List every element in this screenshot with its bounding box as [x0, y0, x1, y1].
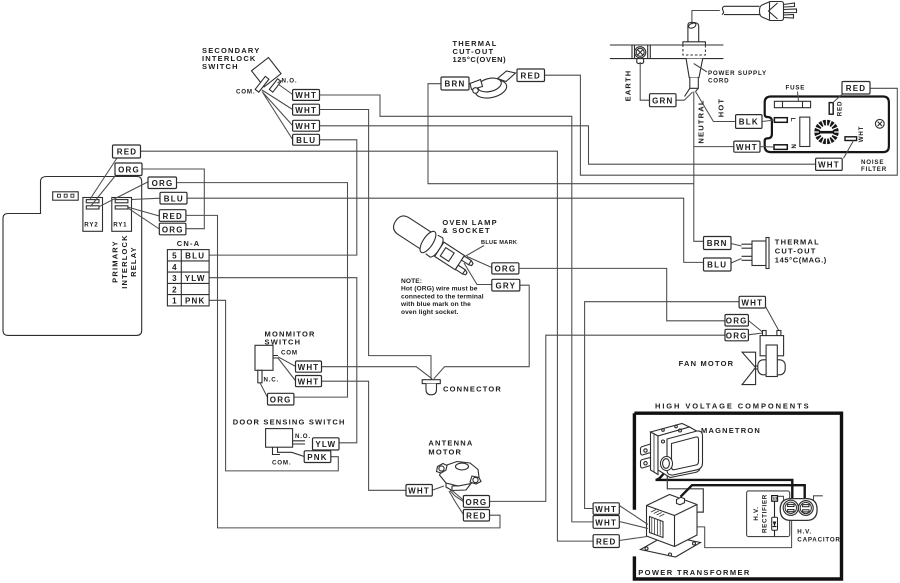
svg-text:COM.: COM. [272, 460, 291, 467]
svg-text:with blue mark on the: with blue mark on the [400, 301, 471, 308]
wire: relay BLU to thermal cut-out BLU [187, 198, 704, 262]
wire label WHT [296, 361, 322, 372]
svg-text:CN-A: CN-A [177, 239, 201, 248]
wire: antenna motor to RED [449, 491, 463, 515]
cord grommet [683, 22, 706, 45]
svg-text:CONNECTOR: CONNECTOR [443, 385, 502, 394]
power cord cable [722, 6, 760, 14]
wire label WHT [293, 104, 320, 115]
grommet hidden outline [683, 45, 706, 55]
wire label ORG [463, 496, 489, 508]
svg-text:HIGH VOLTAGE COMPONENTS: HIGH VOLTAGE COMPONENTS [655, 402, 811, 411]
leader: RED box to terminal [832, 94, 842, 104]
svg-text:MOTOR: MOTOR [428, 447, 462, 456]
wire label ORG [159, 223, 186, 235]
svg-text:THERMAL: THERMAL [775, 238, 820, 247]
secondary interlock switch body [251, 58, 281, 93]
wire label BLU [160, 192, 187, 204]
high voltage components box [634, 413, 841, 579]
wire: oven thermal RED to noise filter RED [545, 75, 898, 175]
wire label ORG [268, 393, 294, 405]
wire: magnetron lead 2 to transformer [667, 471, 703, 513]
thermal cut-out oven body [470, 71, 516, 101]
label THERMAL CUT-OUT 145C (MAG.) [775, 238, 827, 265]
wire label WHT fan [739, 296, 765, 308]
svg-text:N.O.: N.O. [282, 78, 298, 85]
connector [422, 380, 440, 395]
svg-text:WHT: WHT [298, 363, 320, 372]
svg-text:CORD: CORD [708, 78, 729, 85]
wire label BLU [293, 134, 320, 145]
svg-text:BLUE MARK: BLUE MARK [481, 240, 517, 246]
svg-text:RED: RED [163, 212, 184, 221]
wire label RED [463, 510, 489, 522]
door sensing switch body [266, 429, 305, 457]
svg-text:RELAY: RELAY [129, 246, 138, 277]
svg-text:COM: COM [281, 350, 298, 357]
relay RY1 [112, 198, 132, 232]
svg-text:RED: RED [521, 71, 542, 80]
antenna motor body [437, 462, 482, 491]
wire: lamp ORG to fan ORG [519, 268, 725, 320]
noise filter case [765, 97, 889, 153]
wire: neutral line [694, 92, 704, 242]
svg-text:Hot (ORG) wire must be: Hot (ORG) wire must be [401, 286, 478, 293]
note text [400, 278, 484, 316]
chassis bracket [610, 45, 724, 59]
svg-text:ORG: ORG [118, 165, 140, 174]
wire: oven thermal BRN to neutral [428, 84, 694, 184]
wire label BLU [704, 258, 732, 271]
wire label RED [517, 69, 545, 82]
wire: neutral branch to filter WHT [694, 146, 734, 148]
wire: interlock WHT2 to connector [320, 110, 432, 380]
svg-text:RECTIFIER: RECTIFIER [762, 494, 769, 533]
svg-text:RED: RED [846, 84, 867, 93]
wire: interlock WHT1 to transformer WHT [320, 95, 594, 522]
wire label WHT transformer [593, 503, 619, 515]
label: PRIMARY INTERLOCK RELAY [111, 234, 139, 289]
wire: RED lead to transformer [619, 537, 647, 541]
label POWER SUPPLY CORD [708, 70, 767, 85]
terminal N [774, 144, 797, 149]
svg-text:NOTE:: NOTE: [401, 278, 422, 285]
svg-text:ORG: ORG [465, 498, 487, 507]
svg-text:DOOR SENSING SWITCH: DOOR SENSING SWITCH [233, 418, 346, 427]
svg-text:WHT: WHT [818, 161, 840, 170]
svg-text:RY2: RY2 [84, 222, 98, 229]
wire: board ORG to relay ORG [142, 169, 204, 229]
svg-text:YLW: YLW [185, 274, 206, 283]
wire: monitor WHT to connector [322, 367, 433, 379]
svg-text:BLU: BLU [185, 252, 205, 261]
svg-text:ANTENNA: ANTENNA [428, 438, 473, 447]
svg-text:FILTER: FILTER [861, 166, 887, 173]
svg-text:BLU: BLU [296, 136, 316, 145]
wire label WHT [406, 485, 432, 497]
terminal WHT [845, 126, 865, 143]
wire: WHT leads to transformer [619, 506, 648, 529]
svg-text:HOT: HOT [717, 98, 726, 117]
svg-text:ORG: ORG [494, 265, 516, 274]
wire label ORG fan [725, 315, 748, 327]
svg-text:connected to the terminal: connected to the terminal [401, 293, 484, 300]
wire: CN-A pin 1 to door switch PNK [209, 300, 338, 471]
leader: blue mark [464, 246, 484, 258]
svg-text:BLK: BLK [739, 118, 759, 127]
svg-text:FUSE: FUSE [786, 85, 806, 92]
terminal L [774, 118, 796, 123]
cord strain relief [685, 59, 703, 97]
wire label WHT [816, 158, 843, 170]
label MONMITOR SWITCH [265, 330, 316, 347]
svg-text:COM.: COM. [236, 89, 255, 96]
wire: BLK to L terminal [762, 120, 774, 122]
wire label WHT [293, 120, 320, 131]
filter indicator [875, 119, 884, 128]
wire: transformer to capacitor bottom [697, 518, 792, 548]
svg-text:H.V.: H.V. [753, 506, 760, 520]
wire: relay RED to antenna motor RED [186, 215, 500, 528]
relay RY2 [83, 198, 103, 232]
HV capacitor [780, 499, 817, 521]
wire: magnetron lead 1 to capacitor [656, 470, 793, 505]
svg-text:oven light socket.: oven light socket. [401, 309, 459, 316]
wire: BRN to thermal mag [731, 244, 742, 247]
leader: fuse [798, 92, 799, 102]
svg-text:BLU: BLU [164, 195, 184, 204]
svg-text:4: 4 [172, 263, 177, 272]
wire: rectifier to capacitor [778, 496, 784, 501]
wire: GRN to cord [676, 92, 693, 100]
svg-text:WHT: WHT [736, 143, 758, 152]
wire label WHT transformer 2 [593, 516, 619, 529]
wire label YLW [313, 438, 340, 450]
svg-text:WHT: WHT [295, 122, 317, 131]
control board outline [3, 177, 142, 336]
wire: socket to GRY [464, 263, 492, 285]
svg-text:ORG: ORG [726, 317, 748, 326]
svg-text:1: 1 [172, 297, 177, 306]
label NOISE FILTER [861, 159, 887, 173]
svg-text:WHT: WHT [858, 126, 865, 143]
label THERMAL CUT-OUT 125C (OVEN) [453, 39, 507, 64]
wire: relay ORG to monitor switch ORG [177, 183, 348, 398]
wire: cord to grommet [692, 11, 720, 25]
svg-text:3: 3 [172, 274, 177, 283]
svg-text:PRIMARY: PRIMARY [111, 240, 120, 283]
svg-text:YLW: YLW [315, 440, 336, 449]
filter choke coil [814, 120, 839, 145]
wire label RED [842, 82, 870, 95]
wire: ORG lead to RY2 [91, 176, 116, 207]
fan motor body [742, 331, 785, 385]
wire: interlock WHT3 to noise filter WHT [320, 126, 816, 164]
wire: WHT to antenna motor [432, 486, 444, 490]
svg-text:WHT: WHT [595, 518, 617, 527]
wire label RED transformer [593, 535, 619, 548]
svg-text:FAN MOTOR: FAN MOTOR [679, 359, 735, 368]
svg-text:RED: RED [117, 148, 138, 157]
svg-text:& SOCKET: & SOCKET [442, 226, 490, 235]
svg-text:BLU: BLU [707, 261, 727, 270]
wire: board RED to transformer RED [141, 151, 594, 541]
label H.V. CAPACITOR [797, 529, 840, 544]
wire label RED [113, 145, 141, 158]
wire: capacitor case lead [814, 496, 823, 501]
svg-text:BRN: BRN [707, 239, 728, 248]
svg-text:SWITCH: SWITCH [202, 62, 239, 71]
wire: ORG leads to fan terminal [748, 321, 762, 335]
svg-text:ORG: ORG [152, 179, 174, 188]
wire: earth screw to GRN [640, 64, 649, 100]
svg-text:CAPACITOR: CAPACITOR [797, 537, 840, 544]
wire: WHT to N terminal [760, 146, 774, 148]
wire: CN-A pin 3 to door switch YLW [209, 278, 357, 443]
wire: antenna motor to ORG [450, 491, 463, 502]
leader: N.O. label [278, 81, 282, 84]
wire label BLK [736, 115, 762, 129]
earth screw [635, 47, 646, 64]
wire label WHT [734, 141, 760, 152]
svg-text:MAGNETRON: MAGNETRON [701, 426, 761, 435]
wire: monitor WHT2 to antenna WHT [322, 381, 407, 490]
svg-text:POWER TRANSFORMER: POWER TRANSFORMER [638, 568, 751, 577]
wire label ORG fan2 [725, 329, 748, 341]
thermal cut-out mag body [742, 238, 770, 269]
wire label BRN [704, 237, 732, 250]
HV rectifier box [747, 491, 790, 537]
wire: RED lead to RY2 [90, 158, 118, 200]
label ANTENNA MOTOR [428, 438, 473, 456]
svg-text:POWER SUPPLY: POWER SUPPLY [708, 70, 767, 77]
wire: lamp GRY to connector [434, 285, 529, 379]
wire label ORG [492, 263, 519, 274]
wire: monitor N.C. to ORG [260, 383, 268, 398]
wire: monitor COM to WHT leads [278, 357, 296, 381]
svg-text:2: 2 [172, 285, 177, 294]
wire label RED [159, 210, 186, 222]
svg-text:L: L [789, 118, 796, 123]
wire: RY1 lead to ORG [128, 208, 159, 229]
svg-text:ORG: ORG [726, 331, 748, 340]
svg-text:125°C(OVEN): 125°C(OVEN) [453, 55, 507, 64]
svg-text:N.O.: N.O. [295, 433, 311, 440]
wire label ORG [148, 177, 177, 189]
oven lamp and socket [389, 211, 476, 280]
leader: power supply cord [694, 64, 707, 73]
svg-text:BRN: BRN [445, 80, 466, 89]
wire: hot line to BLK [696, 92, 736, 122]
svg-text:PNK: PNK [185, 297, 206, 306]
wire: WHT lead to fan terminal [766, 307, 780, 332]
svg-text:GRY: GRY [495, 282, 516, 291]
wire label GRN [650, 94, 677, 107]
leader: WHT box to terminal [844, 141, 854, 159]
rectifier diode D1 [772, 496, 778, 537]
svg-text:N.C.: N.C. [264, 377, 280, 384]
power cord plug [760, 2, 797, 21]
wire: socket to ORG [467, 257, 492, 268]
wire: BLU to thermal mag [731, 259, 742, 264]
wire label GRY [492, 279, 520, 291]
terminal RED [829, 101, 843, 116]
svg-text:INTERLOCK: INTERLOCK [120, 234, 129, 289]
wire: transformer HV lead to capacitor [681, 485, 805, 504]
svg-text:NEUTRAL: NEUTRAL [697, 99, 706, 143]
svg-text:ORG: ORG [162, 225, 184, 234]
svg-text:WHT: WHT [741, 299, 763, 308]
wire: fan WHT to transformer WHT [585, 302, 740, 509]
label SECONDARY INTERLOCK SWITCH [202, 46, 260, 71]
svg-text:EARTH: EARTH [624, 70, 633, 102]
wire: interlock BLU to CN-A pin 5 [209, 140, 357, 255]
power transformer [641, 495, 701, 558]
wire: fan ORG2 to antenna ORG [490, 335, 726, 501]
wire label WHT [296, 376, 322, 387]
svg-text:WHT: WHT [408, 487, 430, 496]
svg-text:145°C(MAG.): 145°C(MAG.) [775, 256, 827, 265]
wire: ORG lead to RY2 contact [99, 182, 148, 207]
svg-text:5: 5 [172, 252, 177, 261]
wire label ORG [115, 163, 142, 176]
wire label BRN [441, 77, 469, 90]
svg-text:WHT: WHT [595, 505, 617, 514]
monitor switch body [255, 345, 278, 383]
connector CN-A pin table [167, 250, 209, 306]
svg-text:WHT: WHT [295, 91, 317, 100]
svg-text:RED: RED [596, 538, 617, 547]
svg-text:RY1: RY1 [113, 222, 127, 229]
svg-text:WHT: WHT [295, 106, 317, 115]
wire label PNK [304, 451, 331, 463]
fuse F1 [774, 101, 810, 107]
svg-text:ORG: ORG [270, 396, 292, 405]
wire: RY1 lead to RED [128, 207, 159, 216]
svg-text:RED: RED [466, 512, 487, 521]
label H.V. RECTIFIER [753, 494, 769, 533]
svg-text:PNK: PNK [307, 453, 328, 462]
wire: COM leads [262, 90, 293, 140]
svg-text:RED: RED [837, 101, 844, 116]
wire: RY1 lead to BLU [132, 198, 161, 199]
filter capacitor [800, 117, 810, 146]
svg-text:N: N [790, 144, 797, 149]
svg-text:GRN: GRN [652, 96, 673, 105]
svg-text:CUT-OUT: CUT-OUT [775, 247, 817, 256]
svg-text:H.V.: H.V. [797, 529, 812, 536]
label OVEN LAMP & SOCKET [442, 218, 497, 235]
wire: N.O. lead to WHT [278, 84, 293, 95]
svg-text:NOISE: NOISE [861, 159, 884, 166]
board connector block [53, 192, 78, 200]
magnetron [641, 424, 703, 478]
svg-text:WHT: WHT [298, 377, 320, 386]
wire label WHT [293, 90, 320, 101]
